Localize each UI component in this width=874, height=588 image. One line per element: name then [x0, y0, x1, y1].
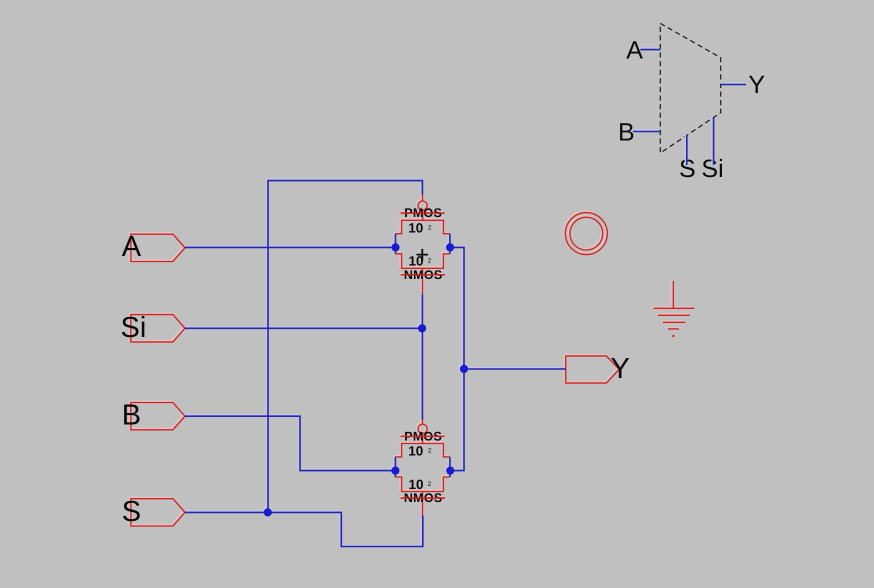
svg-text:2: 2 — [428, 258, 432, 265]
svg-text:A: A — [626, 37, 643, 65]
svg-text:S: S — [122, 496, 141, 528]
svg-text:B: B — [122, 400, 141, 432]
svg-text:10: 10 — [409, 477, 424, 492]
svg-text:B: B — [618, 118, 635, 146]
svg-text:2: 2 — [428, 448, 432, 455]
svg-text:Si: Si — [121, 312, 147, 344]
svg-text:A: A — [122, 231, 142, 263]
ground symbol bottom dot — [672, 335, 674, 337]
cell center marker + — [417, 249, 429, 261]
svg-text:2: 2 — [428, 224, 432, 231]
svg-text:10: 10 — [408, 444, 423, 459]
red pass — [131, 194, 694, 526]
svg-text:10: 10 — [409, 254, 424, 269]
crossout strokes over X2 names — [401, 436, 445, 498]
svg-text:Y: Y — [748, 71, 765, 99]
svg-text:Y: Y — [611, 353, 630, 385]
mux symbol U0 (icon view, dashed trapezoid) — [660, 23, 720, 153]
junction dots — [264, 243, 468, 516]
blue wire pass — [185, 50, 746, 547]
halo pass (up-left light fringes) — [129, 193, 692, 525]
svg-text:2: 2 — [428, 481, 432, 488]
crossout strokes over X1 names — [401, 213, 445, 275]
transmission gate X2 labels — [404, 429, 443, 505]
svg-text:10: 10 — [408, 220, 423, 235]
transmission gate X1 labels — [404, 206, 443, 282]
